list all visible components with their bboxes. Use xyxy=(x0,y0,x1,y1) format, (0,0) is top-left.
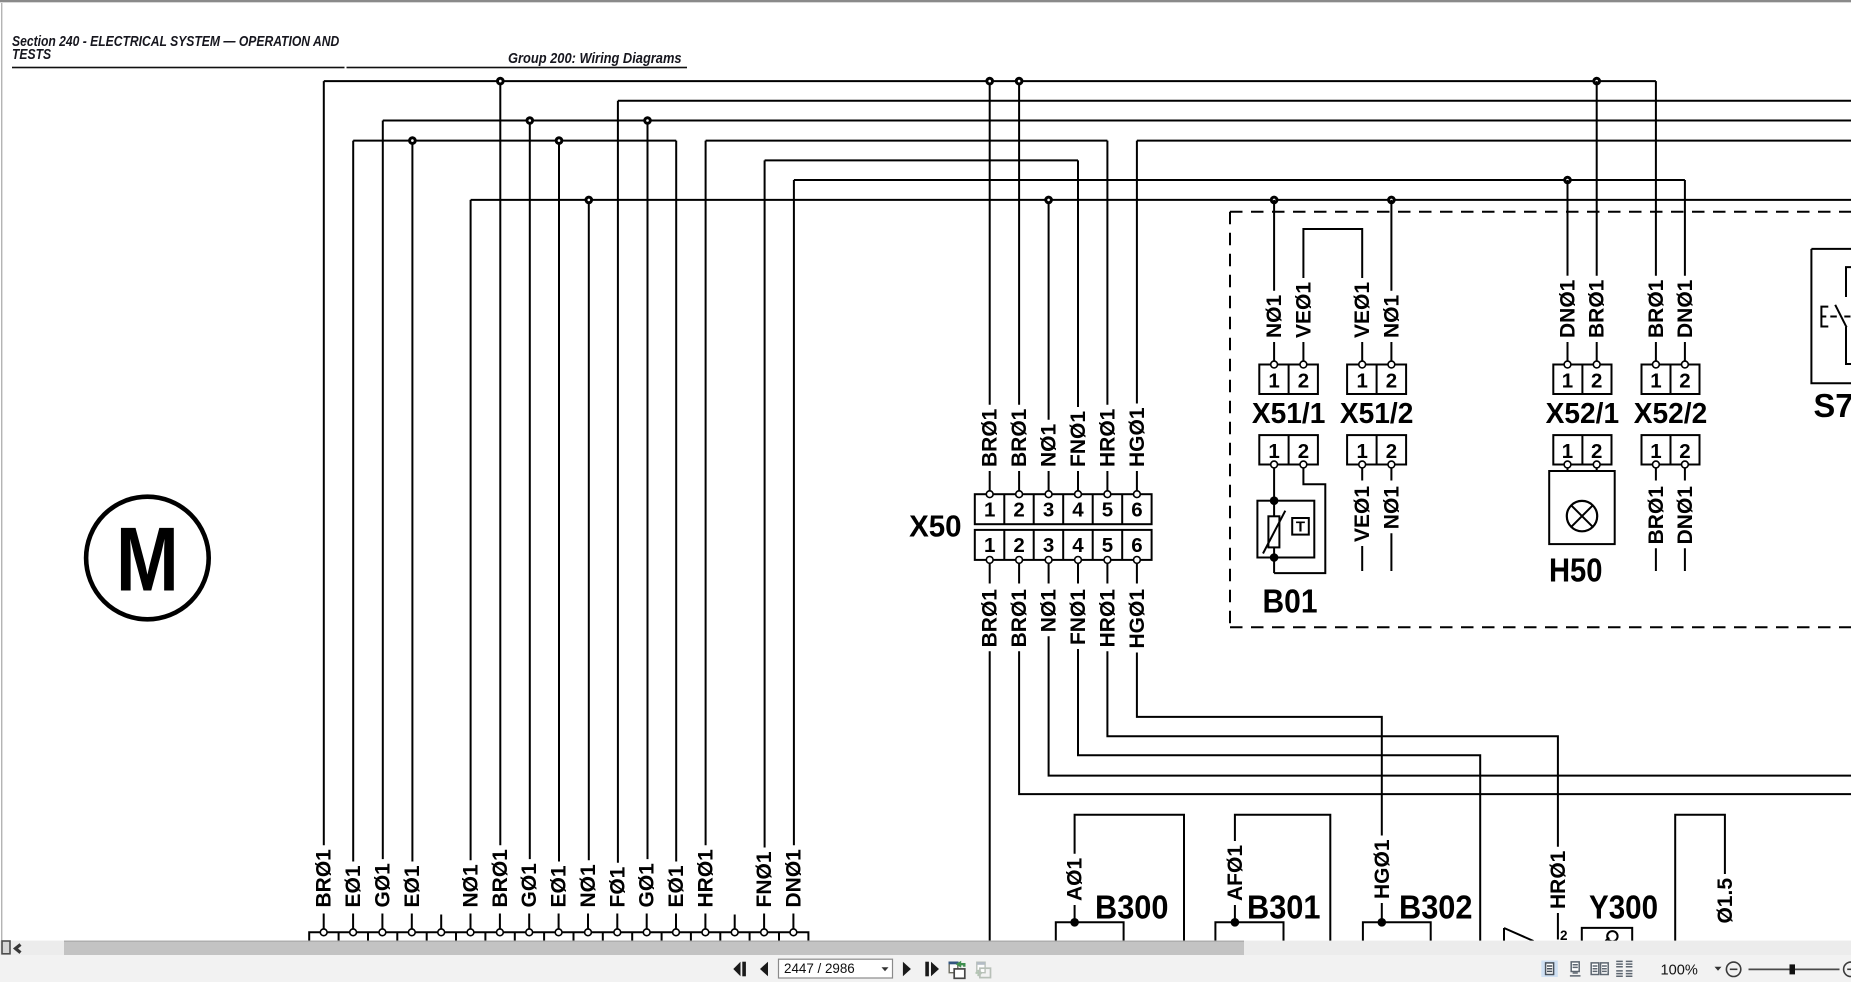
coil circle fragment xyxy=(1607,931,1617,941)
label stubs above row1 xyxy=(1274,342,1391,361)
valve symbol fragment xyxy=(1504,928,1534,941)
wire vertical F01 n10 xyxy=(617,101,619,863)
view mode continuous xyxy=(1570,962,1581,976)
svg-text:100%: 100% xyxy=(1661,962,1698,978)
S72 inner contact box xyxy=(1846,267,1851,364)
svg-text:2: 2 xyxy=(1591,370,1602,393)
svg-text:2: 2 xyxy=(1298,440,1309,463)
wire vertical E01 n12 xyxy=(675,141,677,862)
wire vertical N01 n5 xyxy=(470,200,472,860)
wire vertical E01 n3 xyxy=(411,141,413,862)
svg-text:TESTS: TESTS xyxy=(12,46,51,62)
svg-text:BRØ1: BRØ1 xyxy=(1586,279,1609,338)
zoom slider xyxy=(1749,968,1840,970)
node B01 bottom xyxy=(1270,553,1279,562)
wire vertical HR01 n13 xyxy=(705,141,707,846)
svg-text:GØ1: GØ1 xyxy=(636,863,659,908)
node L6 x1567 xyxy=(1563,176,1572,185)
wire vertical G01 n7 xyxy=(529,121,531,860)
svg-text:2: 2 xyxy=(1013,534,1024,557)
svg-text:2: 2 xyxy=(1591,440,1602,463)
svg-text:2: 2 xyxy=(1298,370,1309,393)
wire vertical G01 n11 xyxy=(647,121,649,860)
svg-text:2: 2 xyxy=(1679,440,1690,463)
thermistor diagonal xyxy=(1263,511,1285,554)
svg-text:FØ1: FØ1 xyxy=(606,866,629,907)
node L4 x412 xyxy=(408,136,417,145)
svg-text:Y300: Y300 xyxy=(1589,889,1658,926)
header left title xyxy=(12,33,682,66)
node L7 x589 xyxy=(585,196,594,205)
svg-text:HGØ1: HGØ1 xyxy=(1126,407,1149,467)
wire N01 pin3 down-right xyxy=(1049,636,1851,775)
svg-text:AØ1: AØ1 xyxy=(1064,858,1087,902)
wire BR01 pin1 down xyxy=(989,651,991,941)
scrollbar row xyxy=(0,941,1851,955)
svg-text:X52/1: X52/1 xyxy=(1546,398,1620,430)
wire HG01 pin6 down-right-down xyxy=(1137,653,1382,836)
X50 bottom stubs xyxy=(990,563,1137,583)
svg-text:GØ1: GØ1 xyxy=(518,863,541,908)
node L7 x1274 xyxy=(1270,196,1279,205)
B301 pickup xyxy=(1215,815,1330,941)
svg-text:1: 1 xyxy=(1562,440,1573,463)
svg-text:EØ1: EØ1 xyxy=(342,865,365,907)
svg-text:BRØ1: BRØ1 xyxy=(313,849,336,908)
view mode facing xyxy=(1591,963,1608,975)
svg-text:HRØ1: HRØ1 xyxy=(1547,850,1570,909)
svg-text:HRØ1: HRØ1 xyxy=(1096,589,1119,648)
X50 connector xyxy=(975,494,1152,560)
svg-text:2: 2 xyxy=(1679,370,1690,393)
svg-text:HGØ1: HGØ1 xyxy=(1371,839,1394,899)
svg-text:Ø1.5: Ø1.5 xyxy=(1714,878,1737,924)
svg-text:B01: B01 xyxy=(1263,583,1318,620)
wire L2 F01 horizontal y100.7 xyxy=(618,100,1851,102)
wire X51/1 row2 pin1 down xyxy=(1273,468,1275,516)
wire X50 pin1-6 top stubs xyxy=(990,471,1137,491)
svg-text:VEØ1: VEØ1 xyxy=(1292,282,1315,338)
wire HG01 horizontal y140.6 right xyxy=(1137,140,1851,142)
svg-text:1: 1 xyxy=(1562,370,1573,393)
svg-text:X52/2: X52/2 xyxy=(1634,398,1708,430)
node L1 x1019 xyxy=(1015,77,1024,86)
label stubs to pins xyxy=(324,914,794,929)
page left edge xyxy=(1,3,2,941)
svg-text:VEØ1: VEØ1 xyxy=(1351,282,1374,338)
svg-text:FNØ1: FNØ1 xyxy=(753,851,776,907)
svg-text:NØ1: NØ1 xyxy=(1380,295,1403,339)
bottom connector pin circles xyxy=(320,929,796,936)
svg-text:2: 2 xyxy=(1386,440,1397,463)
svg-text:NØ1: NØ1 xyxy=(1038,589,1061,633)
svg-text:X51/2: X51/2 xyxy=(1340,398,1414,430)
wire HR01 pin5 down-right-down xyxy=(1107,651,1558,846)
T box xyxy=(1292,518,1309,535)
next page button xyxy=(903,962,911,977)
node L1 x1597 xyxy=(1592,77,1601,86)
B300 pickup xyxy=(1056,815,1184,941)
wire L4b HR01 horizontal y140.6 xyxy=(706,140,1108,142)
svg-text:HRØ1: HRØ1 xyxy=(1096,408,1119,467)
svg-text:B301: B301 xyxy=(1247,889,1321,926)
svg-text:FNØ1: FNØ1 xyxy=(1067,589,1090,645)
svg-text:H50: H50 xyxy=(1549,552,1603,589)
dashed harness box xyxy=(1230,212,1851,627)
wire X52/2 pin2 DN01 from L6 end xyxy=(1684,180,1686,276)
Y300 connector box xyxy=(1582,928,1632,941)
first page button xyxy=(733,962,740,977)
node L1 x500 xyxy=(496,77,505,86)
X50 lower branch wires xyxy=(990,636,1851,941)
svg-text:BRØ1: BRØ1 xyxy=(979,589,1002,648)
B302 sensor xyxy=(1363,903,1431,941)
svg-text:DNØ1: DNØ1 xyxy=(1674,279,1697,338)
svg-text:HGØ1: HGØ1 xyxy=(1126,589,1149,649)
svg-text:GØ1: GØ1 xyxy=(371,863,394,908)
svg-text:BRØ1: BRØ1 xyxy=(979,408,1002,467)
wire X52/1 pin1 DN01 from L6 xyxy=(1567,180,1569,276)
unnamed component right xyxy=(1675,815,1725,941)
X51/2 bottom stubs and labels xyxy=(1362,468,1685,571)
svg-text:EØ1: EØ1 xyxy=(548,865,571,907)
svg-text:HRØ1: HRØ1 xyxy=(694,849,717,908)
svg-text:X51/1: X51/1 xyxy=(1252,398,1326,430)
connector names xyxy=(1252,398,1707,430)
wire vertical FN01 n15 xyxy=(764,160,766,847)
X50 pin numbers xyxy=(984,499,1143,558)
X50 top wire labels xyxy=(979,407,1149,467)
svg-text:B300: B300 xyxy=(1095,889,1169,926)
wire below thermistor xyxy=(1273,547,1275,573)
last page button xyxy=(925,962,929,977)
wire FN01 pin4 down-right-down xyxy=(1078,649,1480,941)
wire X50 pin1 up BR01 xyxy=(989,81,991,405)
svg-text:2447 / 2986: 2447 / 2986 xyxy=(784,961,855,976)
node L1 x990 xyxy=(985,77,994,86)
svg-text:1: 1 xyxy=(1356,440,1367,463)
node L7 x1048 xyxy=(1044,196,1053,205)
Y300 valve xyxy=(1504,913,1632,942)
svg-text:NØ1: NØ1 xyxy=(1038,424,1061,468)
node L4 x559 xyxy=(555,136,564,145)
svg-text:1: 1 xyxy=(1356,370,1367,393)
svg-text:X50: X50 xyxy=(909,509,962,544)
page number box xyxy=(779,959,893,978)
svg-text:1: 1 xyxy=(1268,440,1279,463)
svg-text:T: T xyxy=(1296,519,1305,536)
header rule xyxy=(12,67,345,69)
svg-text:Section 240 - ELECTRICAL SYSTE: Section 240 - ELECTRICAL SYSTEM — OPERAT… xyxy=(12,33,340,49)
wire X52/1 pin2 BR01 from L1 xyxy=(1596,81,1598,276)
svg-text:1: 1 xyxy=(1650,440,1661,463)
svg-text:4: 4 xyxy=(1072,499,1084,522)
bottom connector wire labels xyxy=(313,849,806,908)
svg-text:6: 6 xyxy=(1131,534,1142,557)
svg-text:BRØ1: BRØ1 xyxy=(489,849,512,908)
svg-text:BRØ1: BRØ1 xyxy=(1008,408,1031,467)
toolbar row xyxy=(0,955,1851,982)
svg-text:M: M xyxy=(116,510,179,611)
svg-text:DNØ1: DNØ1 xyxy=(1674,486,1697,545)
switch S72 xyxy=(1811,249,1851,383)
motor M symbol xyxy=(86,497,209,620)
svg-text:3: 3 xyxy=(1043,499,1054,522)
svg-text:1: 1 xyxy=(1268,370,1279,393)
node L3 x530 xyxy=(526,116,535,125)
junction dot highlights xyxy=(411,80,1598,201)
B01 box xyxy=(1257,501,1314,558)
zoom in circle (cut) xyxy=(1844,962,1851,976)
svg-text:EØ1: EØ1 xyxy=(401,865,424,907)
bottom connector X (cut by toolbar) xyxy=(309,914,808,942)
switch lever xyxy=(1835,305,1846,328)
svg-text:5: 5 xyxy=(1102,499,1113,522)
HR01 stub xyxy=(1557,913,1559,940)
previous view button xyxy=(949,961,965,979)
svg-text:2: 2 xyxy=(1013,499,1024,522)
wire vertical N01 n9 xyxy=(588,200,590,860)
svg-text:NØ1: NØ1 xyxy=(1380,486,1403,530)
svg-text:EØ1: EØ1 xyxy=(665,865,688,907)
node L3 x647 xyxy=(643,116,652,125)
wire vertical DN01 n16 xyxy=(793,180,795,845)
wire X50 pin4 up FN01 xyxy=(1077,160,1079,407)
wire X50 pin6 up HG01 xyxy=(1136,141,1138,404)
svg-text:1: 1 xyxy=(984,499,995,522)
svg-text:4: 4 xyxy=(1072,534,1084,557)
view mode single page (active) xyxy=(1541,961,1558,978)
svg-text:5: 5 xyxy=(1102,534,1113,557)
wire vertical BR01 n6 xyxy=(499,81,501,845)
thermistor rect xyxy=(1268,516,1279,547)
svg-text:NØ1: NØ1 xyxy=(1263,295,1286,339)
wire L7 N01 horizontal y199.9 xyxy=(471,199,1851,201)
svg-text:6: 6 xyxy=(1131,499,1142,522)
svg-text:1: 1 xyxy=(1650,370,1661,393)
wire L1 BR01 horizontal y81 xyxy=(324,80,1656,82)
svg-text:NØ1: NØ1 xyxy=(460,864,483,908)
wire X51/2 pin2 N01 from L7 xyxy=(1390,200,1392,291)
X50 pin circles xyxy=(986,491,1140,563)
node B01 top xyxy=(1270,496,1279,505)
svg-text:2: 2 xyxy=(1386,370,1397,393)
X51 X52 top wire labels xyxy=(1263,279,1697,338)
S72 box xyxy=(1811,249,1851,383)
wire L6 DN01 horizontal y180 xyxy=(794,179,1685,181)
wire vertical E01 n8 xyxy=(558,141,560,862)
actuator dashes xyxy=(1830,316,1850,318)
zoom out circle xyxy=(1726,962,1740,976)
wire loop to pin2 xyxy=(1274,468,1325,573)
next view button disabled xyxy=(976,962,991,977)
lamp H50 xyxy=(1549,468,1615,544)
sensor B01 xyxy=(1257,468,1325,573)
X51 X52 cell numbers xyxy=(1268,370,1690,464)
svg-text:3: 3 xyxy=(1043,534,1054,557)
svg-text:1: 1 xyxy=(984,534,995,557)
svg-text:NØ1: NØ1 xyxy=(577,864,600,908)
wire L3 G01 horizontal y120.5 xyxy=(383,120,1851,122)
X50 bottom wire labels xyxy=(979,589,1149,649)
svg-text:DNØ1: DNØ1 xyxy=(782,849,805,908)
wire X50 pin2 up BR01 xyxy=(1018,81,1020,405)
viewer top border xyxy=(0,0,1851,2)
node L7 x1391 xyxy=(1387,196,1396,205)
wire X50 pin3 up N01 xyxy=(1048,200,1050,420)
svg-text:VEØ1: VEØ1 xyxy=(1351,486,1374,542)
X51 X52 pigtail wires xyxy=(1274,81,1685,361)
svg-text:AFØ1: AFØ1 xyxy=(1224,845,1247,901)
svg-text:Group 200: Wiring Diagrams: Group 200: Wiring Diagrams xyxy=(508,50,682,66)
wire VE01 bridge X51/1 pin2 to X51/2 pin1 xyxy=(1303,229,1362,278)
wire BR01 pin2 down-right xyxy=(1019,651,1851,794)
svg-text:BRØ1: BRØ1 xyxy=(1008,589,1031,648)
wire X52/2 pin1 BR01 from L1 end xyxy=(1655,81,1657,276)
X51 X52 pin circles xyxy=(1271,361,1689,468)
E actuator xyxy=(1821,307,1828,327)
wire vertical G01 n2 xyxy=(382,121,384,860)
connector boxes row1/row2 xyxy=(1259,365,1699,465)
svg-text:DNØ1: DNØ1 xyxy=(1557,279,1580,338)
svg-text:FNØ1: FNØ1 xyxy=(1067,411,1090,467)
svg-text:BRØ1: BRØ1 xyxy=(1645,486,1668,545)
svg-text:BRØ1: BRØ1 xyxy=(1645,279,1668,338)
wire vertical BR01 n0 xyxy=(323,81,325,845)
svg-text:S72: S72 xyxy=(1814,387,1851,424)
wire X50 pin5 up HR01 xyxy=(1106,141,1108,405)
view mode facing continuous xyxy=(1616,961,1632,976)
svg-text:B302: B302 xyxy=(1399,889,1473,926)
wire X51/1 pin1 N01 from L7 xyxy=(1273,200,1275,291)
wire L4 E01 horizontal y140.6 xyxy=(353,140,676,142)
prev page button xyxy=(760,962,768,977)
wire L5 FN01 horizontal y160.4 xyxy=(765,159,1078,161)
wire vertical E01 n1 xyxy=(352,141,354,862)
